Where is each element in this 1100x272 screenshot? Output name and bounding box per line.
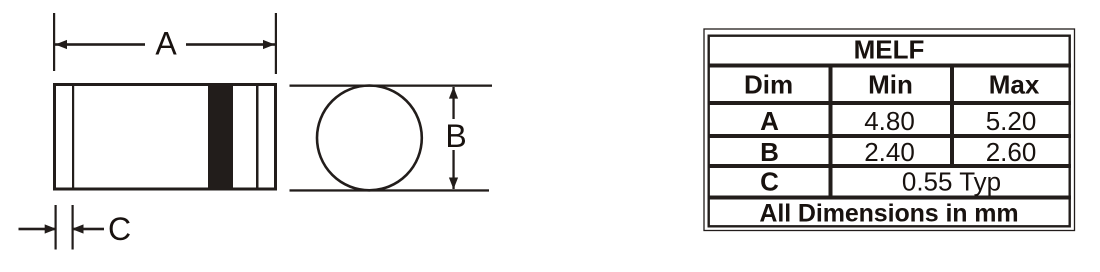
MELF body side view outline: [53, 83, 56, 191]
svg-text:4.80: 4.80: [864, 106, 915, 136]
dimension C line left segment: [19, 228, 55, 231]
right end-cap line: [256, 86, 259, 188]
svg-text:2.60: 2.60: [986, 137, 1037, 167]
table column divider Min/Max: [950, 65, 954, 166]
dimension A arrowhead right: [263, 40, 275, 49]
svg-text:Max: Max: [989, 69, 1040, 99]
end view circle: [317, 85, 422, 190]
svg-text:C: C: [108, 211, 131, 247]
dimension C line right segment: [74, 228, 105, 231]
end view top tangent line: [290, 85, 493, 87]
table inner border: [709, 36, 1070, 227]
table row line under C row: [708, 196, 1072, 200]
dimension C arrowhead right pointing left: [72, 224, 84, 233]
dimension B arrowhead down: [449, 178, 458, 190]
cathode band: [208, 86, 233, 188]
dimension A line left segment: [55, 43, 145, 46]
svg-text:A: A: [155, 26, 177, 62]
svg-text:B: B: [445, 118, 466, 154]
table row line under A row: [708, 134, 1072, 138]
svg-text:5.20: 5.20: [986, 106, 1037, 136]
table row line under MELF: [708, 64, 1072, 68]
dimension C extension line left: [55, 205, 57, 250]
dimension A extension line left: [53, 13, 55, 71]
svg-text:Dim: Dim: [744, 69, 793, 99]
svg-text:Min: Min: [868, 69, 913, 99]
dimension C arrowhead left pointing right: [45, 224, 57, 233]
dimension B line bottom segment: [452, 150, 454, 189]
table outer thin border: [704, 29, 1075, 231]
table row line under B row: [708, 164, 1072, 168]
left end-cap line: [72, 86, 74, 188]
svg-text:MELF: MELF: [854, 34, 925, 64]
end view bottom tangent line: [290, 189, 490, 191]
dimension C extension line right: [72, 205, 74, 250]
svg-text:2.40: 2.40: [864, 137, 915, 167]
svg-text:All Dimensions in mm: All Dimensions in mm: [759, 199, 1018, 227]
table column divider Dim/Min: [829, 65, 833, 197]
svg-text:B: B: [760, 137, 779, 167]
dimension A extension line right: [275, 13, 277, 74]
svg-text:0.55 Typ: 0.55 Typ: [902, 167, 1001, 197]
dimension B arrowhead up: [449, 87, 458, 99]
table row line under Dim/Min/Max: [708, 101, 1072, 105]
svg-text:A: A: [760, 106, 779, 136]
dimension A arrowhead left: [55, 40, 67, 49]
dimension A line right segment: [186, 43, 275, 46]
svg-text:C: C: [760, 167, 779, 197]
dimension B line top segment: [452, 87, 454, 119]
